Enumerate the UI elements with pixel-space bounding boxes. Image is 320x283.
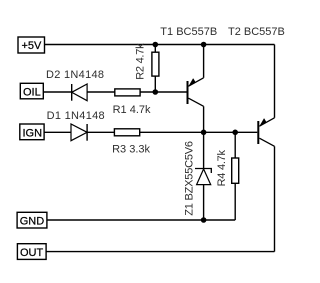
svg-text:+5V: +5V — [22, 40, 43, 52]
node GND terminal box — [17, 212, 47, 228]
wire T1 emitter vertical — [203, 45, 205, 78]
junction dot rail/T1 emitter — [201, 42, 207, 48]
transistor T2 collector diagonal — [259, 138, 274, 146]
junction dot T1 collector/IGN row — [201, 130, 207, 136]
wire R3 to T2 base — [140, 131, 258, 133]
junction dot R4 top/IGN row — [232, 130, 238, 136]
wire zener branch down — [203, 132, 205, 168]
transistor T2 base bar — [257, 121, 259, 144]
diode D1 (triangle pointing right, cathode bar right) — [71, 124, 87, 141]
svg-text:R3 3.3k: R3 3.3k — [112, 143, 150, 155]
svg-text:T1 BC557B: T1 BC557B — [160, 26, 217, 38]
svg-text:D1 1N4148: D1 1N4148 — [47, 110, 105, 122]
junction dot rail/R2 — [153, 42, 159, 48]
resistor R2 body — [152, 52, 159, 76]
wire +5V rail to T2 emitter top — [45, 44, 275, 46]
zener diode Z1 (cathode bar top with bent end, triangle pointing up) — [195, 169, 211, 185]
node +5V terminal box — [18, 37, 45, 53]
wire R1 to T1 base — [140, 91, 187, 93]
resistor R1 body — [115, 89, 140, 96]
svg-text:OUT: OUT — [20, 247, 44, 259]
wire D2 to R1 — [87, 91, 115, 93]
svg-text:R4 4.7k: R4 4.7k — [216, 149, 228, 186]
diode D2 (cathode bar left, triangle pointing left) — [72, 84, 87, 101]
resistor R4 body — [232, 158, 239, 183]
resistor R2 branch wires — [154, 45, 156, 93]
transistor T1 collector diagonal — [189, 98, 204, 106]
svg-text:T2 BC557B: T2 BC557B — [228, 26, 285, 38]
wire T2 collector down to OUT row — [274, 146, 276, 251]
transistor T2 emitter with arrow — [259, 118, 274, 126]
resistor R3 body — [114, 129, 139, 136]
node OIL terminal box — [20, 83, 43, 99]
wire OIL row: box to D2 — [43, 91, 71, 93]
wire T2 emitter vertical — [274, 45, 276, 118]
svg-text:OIL: OIL — [23, 87, 41, 99]
svg-text:GND: GND — [20, 216, 45, 228]
svg-text:Z1 BZX55C5V6: Z1 BZX55C5V6 — [183, 141, 195, 216]
wire D1 to R3 — [87, 131, 114, 133]
resistor R4 branch wires — [234, 132, 236, 220]
wire GND row — [47, 219, 235, 221]
svg-text:D2 1N4148: D2 1N4148 — [46, 69, 104, 81]
wire T1 collector down to IGN row — [203, 106, 205, 132]
node OUT terminal box — [17, 244, 46, 260]
node IGN terminal box — [20, 124, 44, 140]
svg-text:R1 4.7k: R1 4.7k — [113, 104, 151, 116]
svg-text:IGN: IGN — [23, 127, 43, 139]
wire zener anode to GND row — [203, 185, 205, 220]
wire OUT row — [46, 251, 274, 253]
junction dot OIL row/R2 bottom — [153, 89, 159, 95]
wire IGN row: box to D1 — [44, 131, 71, 133]
svg-text:R2 4.7k: R2 4.7k — [134, 43, 146, 80]
transistor T1 emitter with arrow — [189, 78, 204, 86]
junction dot zener/GND row — [201, 217, 207, 223]
transistor T1 base bar — [187, 81, 189, 104]
